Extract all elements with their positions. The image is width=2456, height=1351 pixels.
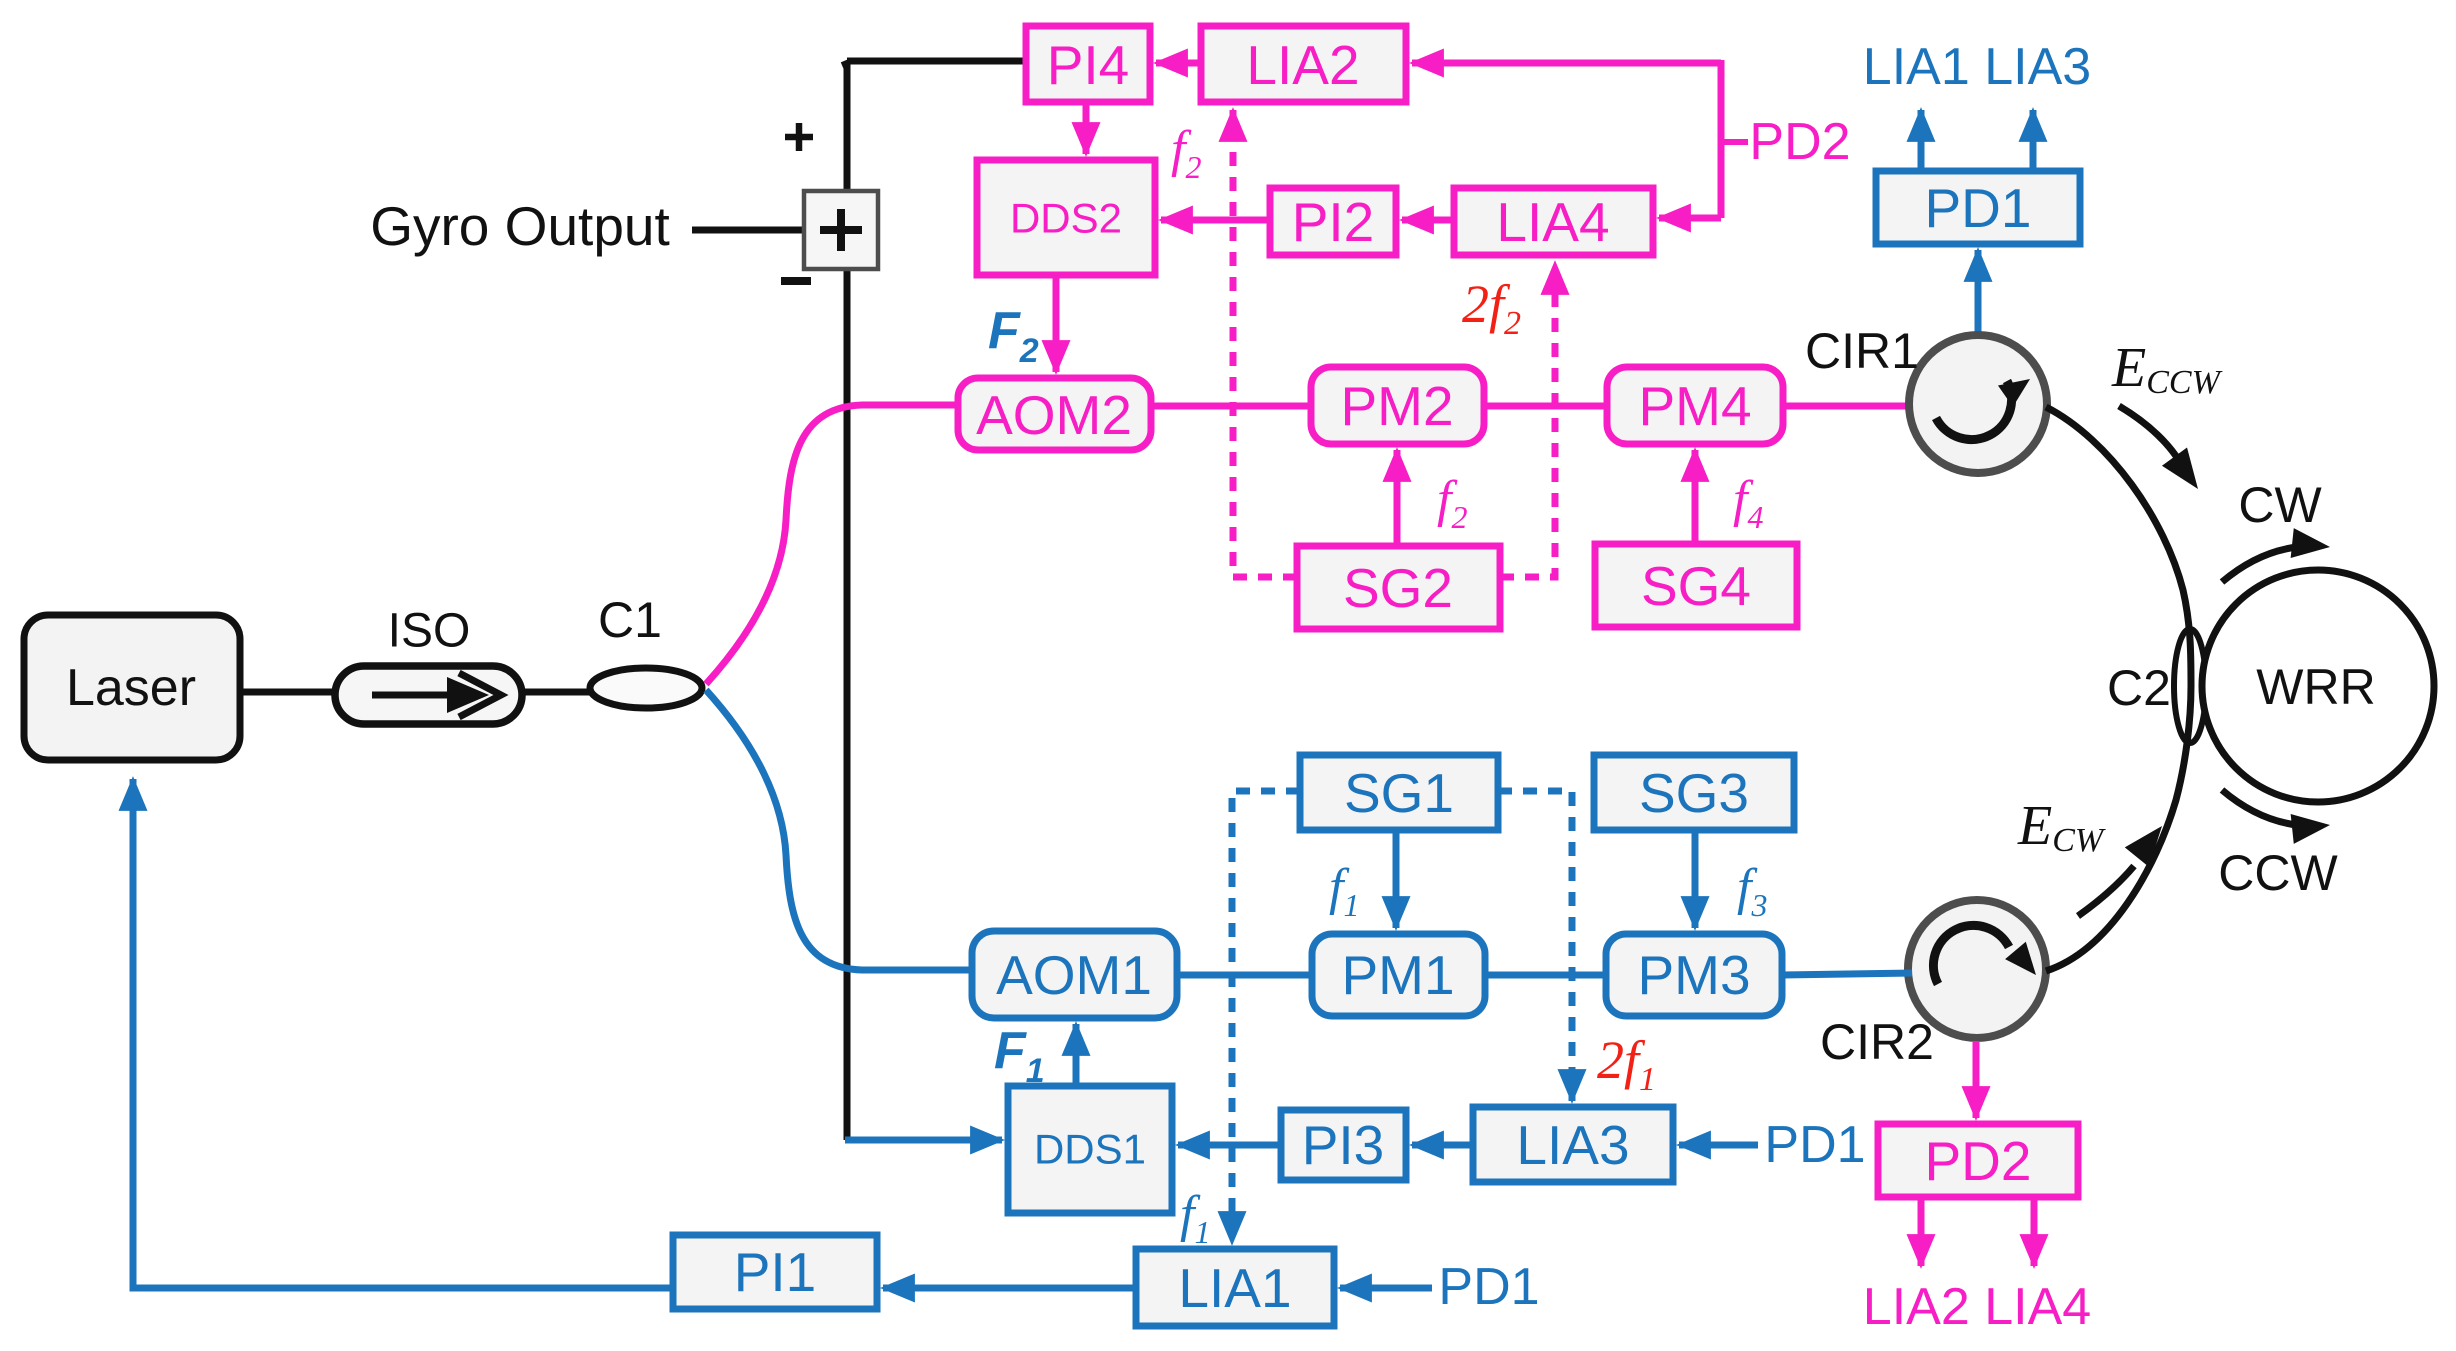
- block LIA2: [1201, 26, 1406, 102]
- label E_CW: [2017, 795, 2106, 859]
- wire: PD1 to LIA3 arrow: [2030, 110, 2037, 171]
- svg-text:PD1: PD1: [1764, 1116, 1865, 1174]
- svg-text:ISO: ISO: [388, 605, 471, 658]
- wire: PM3 to CIR2: [1782, 973, 1912, 975]
- phase modulator PM1: [1312, 934, 1485, 1016]
- label + (plus input of adder): [785, 123, 813, 151]
- svg-text:DDS2: DDS2: [1010, 195, 1122, 242]
- label f1 (LIA1 reference): [1180, 1186, 1210, 1250]
- wire: PM2 to PM4: [1484, 403, 1607, 410]
- svg-text:Laser: Laser: [66, 659, 196, 717]
- svg-text:PM1: PM1: [1341, 944, 1454, 1006]
- wire: SG1 reference dashed to LIA1 arrow: [1232, 791, 1300, 1243]
- svg-text:Gyro Output: Gyro Output: [370, 195, 670, 257]
- svg-text:C1: C1: [598, 592, 662, 648]
- wire: PD2 to LIA4 arrow: [2031, 1197, 2038, 1266]
- svg-text:PD2: PD2: [1925, 1130, 2032, 1192]
- wire: DDS2 to AOM2 arrow: [1053, 275, 1060, 372]
- label f1 (PM1 drive): [1329, 859, 1359, 923]
- wire: AOM1 to PM1: [1177, 972, 1312, 979]
- svg-text:LIA1: LIA1: [1178, 1257, 1291, 1319]
- svg-text:LIA3: LIA3: [1516, 1114, 1629, 1176]
- block DDS2: [977, 160, 1155, 275]
- wire: PD1 to LIA3 arrow: [1679, 1142, 1758, 1149]
- isolator ISO: [335, 666, 522, 724]
- label 2f1 (LIA3 reference): [1597, 1030, 1656, 1098]
- label CCW: [2218, 845, 2338, 901]
- label Gyro Output: [370, 195, 670, 257]
- wire: summing line into DDS1 arrow: [845, 1137, 1002, 1144]
- modulator AOM2: [958, 378, 1151, 450]
- wire: magenta fiber from C1 up to AOM2 (CCW branch): [706, 405, 958, 684]
- wire: SG1 to PM1 arrow: [1393, 830, 1400, 928]
- wire: PD2 to LIA2 arrow: [1918, 1197, 1925, 1266]
- label PD1 (input to LIA1): [1438, 1258, 1539, 1316]
- svg-text:CCW: CCW: [2218, 845, 2338, 901]
- svg-text:SG3: SG3: [1639, 762, 1749, 824]
- resonator ring WRR: [2202, 570, 2434, 802]
- label F1 (DDS1 output frequency): [994, 1022, 1045, 1090]
- summing node (+) adder box: [804, 191, 878, 269]
- block PI3: [1281, 1110, 1406, 1180]
- label CIR1: [1805, 323, 1919, 379]
- photodetector PD2: [1878, 1124, 2078, 1197]
- signal generator SG3: [1594, 755, 1794, 830]
- wire: PI2 to DDS2 arrow: [1161, 217, 1270, 224]
- signal generator SG1: [1300, 755, 1498, 830]
- wire: SG1 second-harmonic dashed to LIA3 arrow: [1498, 791, 1572, 1101]
- svg-text:PM2: PM2: [1340, 375, 1453, 437]
- block PI4: [1026, 26, 1150, 102]
- wire: CIR1 to PD1 arrow: [1975, 250, 1982, 337]
- svg-text:DDS1: DDS1: [1034, 1126, 1146, 1173]
- wire: ISO to C1: [522, 689, 592, 696]
- wire: AOM2 to PM2: [1151, 403, 1311, 410]
- label CW: [2238, 477, 2322, 533]
- svg-text:CIR2: CIR2: [1820, 1014, 1934, 1070]
- wire: SG2 second-harmonic dashed to LIA4 arrow: [1500, 263, 1555, 577]
- label C1: [598, 592, 662, 648]
- wire: PD2 feedback to LIA4 arrow: [1659, 215, 1721, 222]
- svg-text:C2: C2: [2107, 660, 2171, 716]
- block LIA4: [1454, 188, 1653, 255]
- phase modulator PM2: [1311, 367, 1484, 444]
- label CIR2: [1820, 1014, 1934, 1070]
- wire: LIA3 to PI3 arrow: [1412, 1142, 1473, 1149]
- wire: PD2 feedback to LIA2 arrow: [1412, 60, 1721, 67]
- wire: PD1 to LIA1 arrow: [1918, 110, 1925, 171]
- svg-text:AOM2: AOM2: [976, 384, 1132, 446]
- wire: SG2 reference dashed to LIA2 arrow: [1233, 110, 1297, 577]
- label f4 (PM4 drive): [1733, 471, 1763, 535]
- wire: DDS1 to AOM1 arrow: [1073, 1024, 1080, 1086]
- circulator CIR1: [1909, 335, 2047, 473]
- wire: PI3 to DDS1 arrow: [1178, 1142, 1281, 1149]
- svg-text:PM4: PM4: [1638, 375, 1751, 437]
- wire: LIA1 to PI1 arrow: [883, 1285, 1136, 1292]
- svg-text:PM3: PM3: [1637, 944, 1750, 1006]
- svg-text:SG4: SG4: [1641, 555, 1751, 617]
- svg-text:PI4: PI4: [1047, 34, 1130, 96]
- circulator CIR2: [1908, 900, 2046, 1038]
- block DDS1: [1008, 1086, 1172, 1213]
- label E_CCW: [2111, 337, 2223, 401]
- svg-text:PD2: PD2: [1749, 113, 1850, 171]
- phase modulator PM3: [1606, 934, 1782, 1016]
- wire: LIA2 to PI4 arrow: [1156, 60, 1201, 67]
- wire: CW circulation arrow on ring: [2222, 528, 2332, 582]
- wire: black vertical feedback line from summing node down to DDS1 corner: [844, 64, 851, 1140]
- laser source box Laser: [24, 615, 240, 760]
- wire: E_CCW direction arrow near CIR1: [2119, 406, 2211, 498]
- wire: LIA4 to PI2 arrow: [1402, 217, 1454, 224]
- wire: CCW circulation arrow under ring: [2222, 790, 2332, 844]
- wire: E_CW direction arrow near CIR2: [2078, 816, 2174, 916]
- label LIA1 LIA3 (PD1 outputs): [1863, 38, 2091, 96]
- signal generator SG4: [1595, 544, 1797, 627]
- label F2 (DDS2 output frequency): [988, 302, 1039, 370]
- label WRR: [2256, 659, 2375, 715]
- wire: SG4 to PM4 arrow: [1692, 450, 1699, 544]
- svg-text:AOM1: AOM1: [996, 944, 1152, 1006]
- wire: Gyro Output lead into summing node: [692, 227, 804, 234]
- label f2 (PM2 drive): [1437, 471, 1467, 535]
- svg-text:LIA1 LIA3: LIA1 LIA3: [1863, 38, 2091, 96]
- wire: PM4 to CIR1: [1783, 403, 1914, 410]
- svg-text:PI3: PI3: [1302, 1114, 1385, 1176]
- svg-text:WRR: WRR: [2256, 659, 2375, 715]
- label f2 (LIA2 reference): [1171, 121, 1201, 185]
- label - (minus input of adder): [781, 277, 811, 285]
- svg-text:SG2: SG2: [1343, 557, 1453, 619]
- wire: PD1 to LIA1 arrow: [1340, 1285, 1432, 1292]
- block PI1: [673, 1235, 877, 1309]
- photodetector PD1: [1876, 171, 2080, 244]
- block LIA3: [1473, 1107, 1673, 1182]
- coupler C1 (fiber coupler ellipse): [590, 668, 702, 708]
- wire: PM1 to PM3: [1485, 972, 1606, 979]
- wire: SG3 to PM3 arrow: [1692, 830, 1699, 928]
- svg-text:CIR1: CIR1: [1805, 323, 1919, 379]
- block PI2: [1270, 188, 1396, 255]
- wire: blue fiber from C1 down to AOM1 (CW branch): [706, 690, 972, 970]
- label LIA2 LIA4 (PD2 outputs): [1863, 1278, 2091, 1336]
- wire: PD2 feedback vertical line: [1718, 60, 1725, 218]
- coupler C2 (ring coupler lens): [2174, 629, 2206, 743]
- phase modulator PM4: [1607, 367, 1783, 444]
- svg-text:LIA2 LIA4: LIA2 LIA4: [1863, 1278, 2091, 1336]
- label PD1 (input to LIA3): [1764, 1116, 1865, 1174]
- label PD2 (top feedback tap): [1723, 113, 1851, 171]
- svg-text:SG1: SG1: [1344, 762, 1454, 824]
- label ISO: [388, 605, 471, 658]
- block LIA1: [1136, 1249, 1334, 1326]
- wire: SG2 to PM2 arrow: [1394, 450, 1401, 546]
- label 2f2 (LIA4 reference): [1462, 274, 1521, 342]
- svg-text:PI2: PI2: [1292, 191, 1375, 253]
- modulator AOM1: [972, 931, 1177, 1018]
- wire: PI4 to DDS2 arrow: [1083, 102, 1090, 154]
- svg-text:PD1: PD1: [1438, 1258, 1539, 1316]
- label C2: [2107, 660, 2171, 716]
- svg-text:PI1: PI1: [734, 1241, 817, 1303]
- svg-text:LIA2: LIA2: [1246, 34, 1359, 96]
- wire: CIR2 to PD2 arrow: [1973, 1041, 1980, 1118]
- wire: Laser to ISO: [240, 689, 340, 696]
- wire: PI1 to Laser feedback arrow: [133, 779, 673, 1288]
- svg-text:CW: CW: [2238, 477, 2322, 533]
- wire: black line from summing node top to PI4: [844, 61, 1026, 68]
- wire: fiber loop CIR1 to C2 to CIR2: [2046, 407, 2191, 971]
- signal generator SG2: [1297, 546, 1500, 629]
- svg-text:LIA4: LIA4: [1496, 191, 1609, 253]
- svg-text:PD1: PD1: [1925, 177, 2032, 239]
- label f3 (PM3 drive): [1737, 859, 1767, 923]
